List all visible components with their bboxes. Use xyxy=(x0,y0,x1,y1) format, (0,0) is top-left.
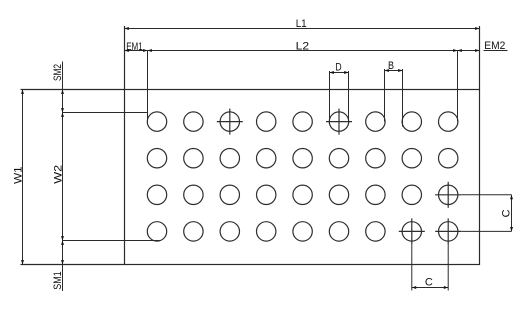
arrow W1 bottom xyxy=(21,260,24,264)
arrow C right bottom xyxy=(510,227,513,231)
SM1 extension line at row4 bottom edge xyxy=(63,240,161,242)
dimension line L1 xyxy=(125,28,480,30)
B left extension line xyxy=(384,69,386,122)
dimension chain line SM2 / W2 / SM1 xyxy=(62,62,64,292)
svg-text:EM1: EM1 xyxy=(126,41,143,53)
arrow W2 top xyxy=(61,113,64,117)
svg-text:L1: L1 xyxy=(296,18,307,30)
EM2 extension line at last hole right edge xyxy=(457,51,459,122)
EM2 text underline xyxy=(484,50,508,52)
arrow B right xyxy=(398,69,402,72)
hole row 4 xyxy=(147,222,458,241)
arrow L2 left xyxy=(148,49,152,52)
svg-text:D: D xyxy=(335,62,341,74)
plate top edge extension to W1 xyxy=(21,89,125,91)
arrow D right xyxy=(344,71,348,74)
arrow L1 right xyxy=(475,27,479,30)
EM1 extension line at first hole left edge xyxy=(147,51,149,122)
dimension line B xyxy=(385,70,403,72)
dimension line C right xyxy=(511,195,513,232)
arrow L2 right xyxy=(453,49,457,52)
dimension chain line EM1 / L2 / EM2 xyxy=(125,50,480,52)
svg-text:W1: W1 xyxy=(12,166,24,184)
arrow EM1 left xyxy=(125,49,129,52)
arrow SM2 top xyxy=(61,90,64,94)
arrow C bottom right xyxy=(444,286,448,289)
svg-text:W2: W2 xyxy=(53,165,65,184)
B right extension line xyxy=(402,69,404,127)
C right extension line from row3 hole xyxy=(461,194,511,196)
arrow C right top xyxy=(510,195,513,199)
center mark hole row 4 col 8 xyxy=(399,218,425,244)
C bottom extension line from col8 hole xyxy=(411,244,413,290)
center mark hole row 1 col 3 xyxy=(217,109,243,135)
center mark hole row 3 col 9 xyxy=(435,182,461,208)
svg-text:C: C xyxy=(425,277,433,289)
arrow EM1 right xyxy=(143,49,147,52)
arrow C bottom left xyxy=(412,286,416,289)
dimension line C bottom xyxy=(412,287,448,289)
plate bottom edge extension to W1 xyxy=(21,264,125,266)
arrow SM1 top xyxy=(61,241,64,245)
hole row 3 xyxy=(147,185,458,204)
svg-text:B: B xyxy=(388,60,394,72)
arrow L1 left xyxy=(125,27,129,30)
arrow W2 bottom xyxy=(61,236,64,240)
svg-text:C: C xyxy=(501,209,513,217)
svg-text:EM2: EM2 xyxy=(484,40,505,52)
hole row 2 xyxy=(147,149,458,168)
arrow W1 top xyxy=(21,90,24,94)
arrow SM2 bottom xyxy=(61,108,64,112)
center mark hole row 1 col 6 xyxy=(326,109,352,135)
arrow EM2 right xyxy=(475,49,479,52)
C bottom extension line from col9 hole xyxy=(447,244,449,290)
dimension line W1 xyxy=(22,90,24,265)
arrow EM2 left xyxy=(458,49,462,52)
arrow D left xyxy=(330,71,334,74)
D right extension line xyxy=(348,71,350,122)
center mark hole row 4 col 9 xyxy=(435,218,461,244)
SM2 extension line at row1 top edge xyxy=(63,112,148,114)
hole row 1 xyxy=(147,112,458,131)
arrow SM1 bottom xyxy=(61,260,64,264)
D left extension line xyxy=(329,71,331,122)
svg-text:SM2: SM2 xyxy=(52,64,64,81)
C right extension line from row4 hole xyxy=(461,230,511,232)
plate outline xyxy=(125,90,480,265)
arrow B left xyxy=(385,69,389,72)
plate right edge extension up to L1 xyxy=(479,26,481,90)
svg-text:L2: L2 xyxy=(296,41,310,53)
dimension line D xyxy=(330,72,349,74)
svg-text:SM1: SM1 xyxy=(52,271,64,289)
plate left edge extension up to L1 xyxy=(124,26,126,90)
